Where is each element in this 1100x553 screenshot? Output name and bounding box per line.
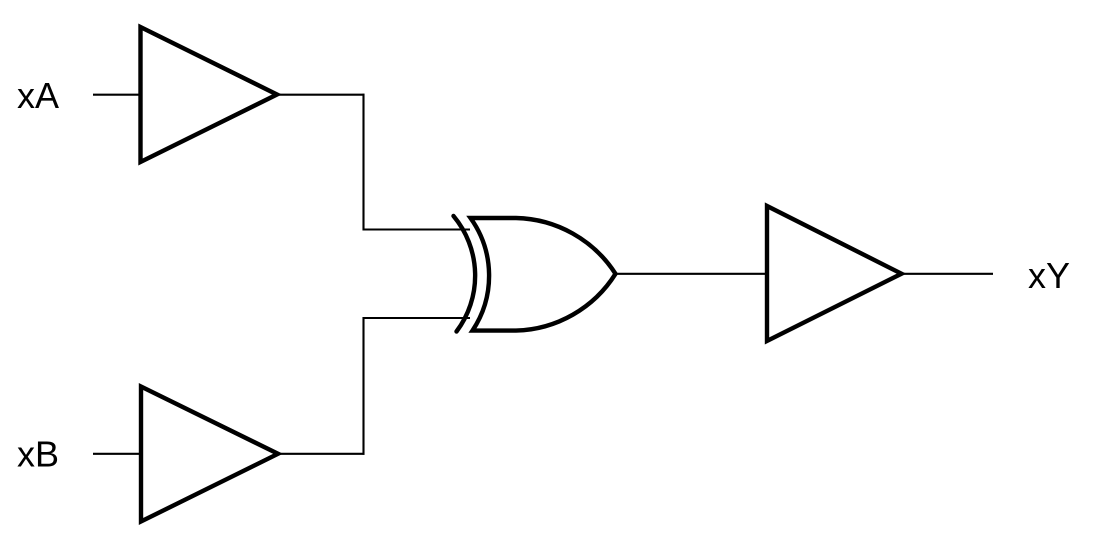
xor gate U3 body bbox=[471, 218, 616, 331]
wire U1 output vertical down bbox=[362, 94, 364, 231]
buffer U1 bbox=[141, 27, 278, 162]
wire U4 output bbox=[902, 273, 994, 275]
wire XOR output to buffer U4 bbox=[616, 273, 768, 275]
wire to XOR top input bbox=[363, 228, 471, 230]
wire xB to buffer U2 input bbox=[93, 453, 141, 455]
wire to XOR bottom input bbox=[363, 317, 471, 319]
svg-text:xY: xY bbox=[1028, 255, 1070, 296]
wire xA to buffer U1 input bbox=[93, 94, 140, 96]
xor gate U3 extra input arc bbox=[454, 216, 476, 332]
svg-text:xA: xA bbox=[17, 75, 59, 116]
buffer U4 bbox=[767, 206, 902, 341]
svg-text:xB: xB bbox=[17, 434, 59, 475]
wire U2 output horizontal bbox=[278, 453, 365, 455]
wire U2 output vertical up bbox=[362, 317, 364, 455]
buffer U2 bbox=[141, 387, 278, 522]
wire U1 output horizontal bbox=[277, 94, 365, 96]
